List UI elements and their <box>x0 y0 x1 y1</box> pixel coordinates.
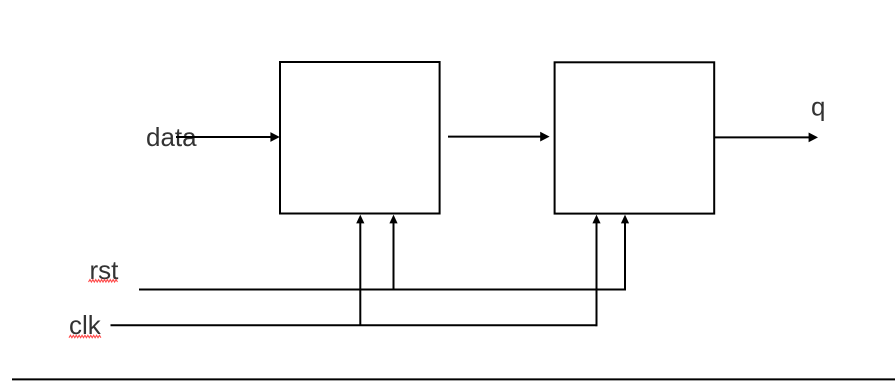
wire data input <box>176 132 280 142</box>
flip-flop U2 <box>555 62 715 213</box>
wire clk to U2 reset pin <box>592 215 600 327</box>
spellcheck underline rst <box>89 280 118 282</box>
flip-flop U1 <box>280 62 440 214</box>
wire rst to U1 clock pin <box>389 215 397 290</box>
wire rst <box>139 289 625 291</box>
wire U2 output q <box>715 133 818 143</box>
wire U1 output to U2 input <box>448 132 550 142</box>
spellcheck underline clk <box>69 335 101 337</box>
horizontal rule <box>12 378 895 380</box>
wire rst to U2 clock pin <box>621 215 629 291</box>
svg-text:q: q <box>811 92 825 122</box>
wire clk to U1 reset pin <box>356 215 364 326</box>
wire clk <box>111 324 597 326</box>
